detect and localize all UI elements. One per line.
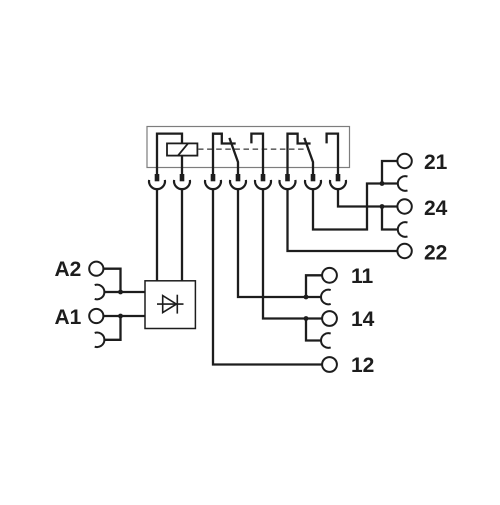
terminal 11 screw clamp — [322, 268, 337, 283]
pin 1 socket — [149, 180, 165, 189]
wire pin 2 to rectifier — [181, 189, 183, 281]
wire pin 1 to coil top — [157, 134, 182, 175]
wire terminal A2 to rectifier — [103, 269, 145, 292]
pin 2 socket — [174, 180, 190, 189]
rectifier box — [145, 281, 195, 329]
terminal 14 lower clamp — [321, 333, 331, 348]
branch to terminal 24 lower clamp — [382, 207, 398, 230]
terminal 21 lower clamp — [398, 176, 408, 191]
wire terminal A1 to rectifier — [103, 315, 145, 317]
pin 5 socket — [255, 180, 271, 189]
junction node 14 — [304, 316, 309, 321]
relay coil K1 — [167, 143, 197, 155]
terminal 22 screw clamp — [397, 244, 411, 258]
wire pin 3 to terminal 12 — [213, 189, 322, 365]
NO fixed contact, pole 1 (pin 5) — [251, 134, 263, 175]
wire A1 lower clamp — [105, 316, 121, 340]
wire pin 5 to terminal 14 group — [263, 189, 322, 319]
junction node 11 — [304, 295, 309, 300]
relay housing outline — [147, 127, 350, 168]
wire pin 6 to terminal 22 — [288, 189, 398, 251]
pin 1 plug — [155, 174, 160, 181]
wire pin 1 to rectifier — [156, 189, 158, 281]
NC fixed contact, pole 1 (pin 3) — [213, 134, 236, 175]
branch to terminal 14 lower clamp — [306, 319, 321, 341]
movable contact lever, pole 1 (pin 4) — [229, 138, 238, 175]
pin 3 socket — [205, 180, 221, 189]
terminal 21 screw clamp — [397, 154, 411, 168]
pin 8 plug — [336, 174, 341, 181]
terminal 24 lower clamp — [398, 222, 408, 237]
terminal A2 screw clamp — [89, 262, 103, 276]
pin 5 plug — [261, 174, 266, 181]
movable contact lever, pole 2 (pin 7) — [304, 138, 313, 175]
svg-text:24: 24 — [424, 197, 448, 220]
mechanical link (dashed) — [198, 148, 308, 150]
svg-text:A2: A2 — [54, 258, 81, 281]
pin 7 plug — [311, 174, 316, 181]
svg-text:14: 14 — [351, 308, 375, 331]
terminal 11 lower clamp — [321, 290, 331, 305]
terminal 12 screw clamp — [322, 357, 337, 372]
svg-text:A1: A1 — [54, 306, 81, 329]
NO fixed contact, pole 2 (pin 8) — [327, 134, 338, 175]
svg-text:21: 21 — [424, 151, 448, 174]
NC fixed contact, pole 2 (pin 6) — [288, 134, 311, 175]
junction node 24 — [380, 204, 385, 209]
pin 3 plug — [211, 174, 216, 181]
svg-text:11: 11 — [351, 265, 374, 288]
terminal A2 lower clamp — [95, 285, 105, 300]
terminal A1 lower clamp — [95, 333, 105, 348]
pin 6 plug — [285, 174, 290, 181]
wire coil bottom to pin 2 — [181, 156, 183, 175]
junction node 21 — [380, 181, 385, 186]
svg-text:22: 22 — [424, 241, 447, 264]
pin 6 socket — [280, 180, 296, 189]
junction node A1 — [118, 314, 123, 319]
pin 2 plug — [180, 174, 185, 181]
pin 4 plug — [236, 174, 241, 181]
terminal 14 screw clamp — [322, 311, 337, 326]
junction node A2 — [118, 290, 123, 295]
branch to terminal 21 circle — [382, 161, 397, 184]
terminal A1 screw clamp — [89, 309, 103, 323]
terminal 24 screw clamp — [397, 199, 411, 213]
pin 4 socket — [230, 180, 246, 189]
diode D1 — [157, 295, 184, 314]
wire pin 8 to terminal 24 — [338, 189, 397, 207]
wire A2 lower clamp — [105, 291, 121, 293]
wire pin 4 to terminal 11 group — [238, 189, 321, 297]
wire pin 7 to terminal 21 group — [313, 184, 398, 230]
pin 7 socket — [305, 180, 321, 189]
pin 8 socket — [330, 180, 346, 189]
branch to terminal 11 circle — [306, 275, 322, 297]
svg-text:12: 12 — [351, 354, 374, 377]
